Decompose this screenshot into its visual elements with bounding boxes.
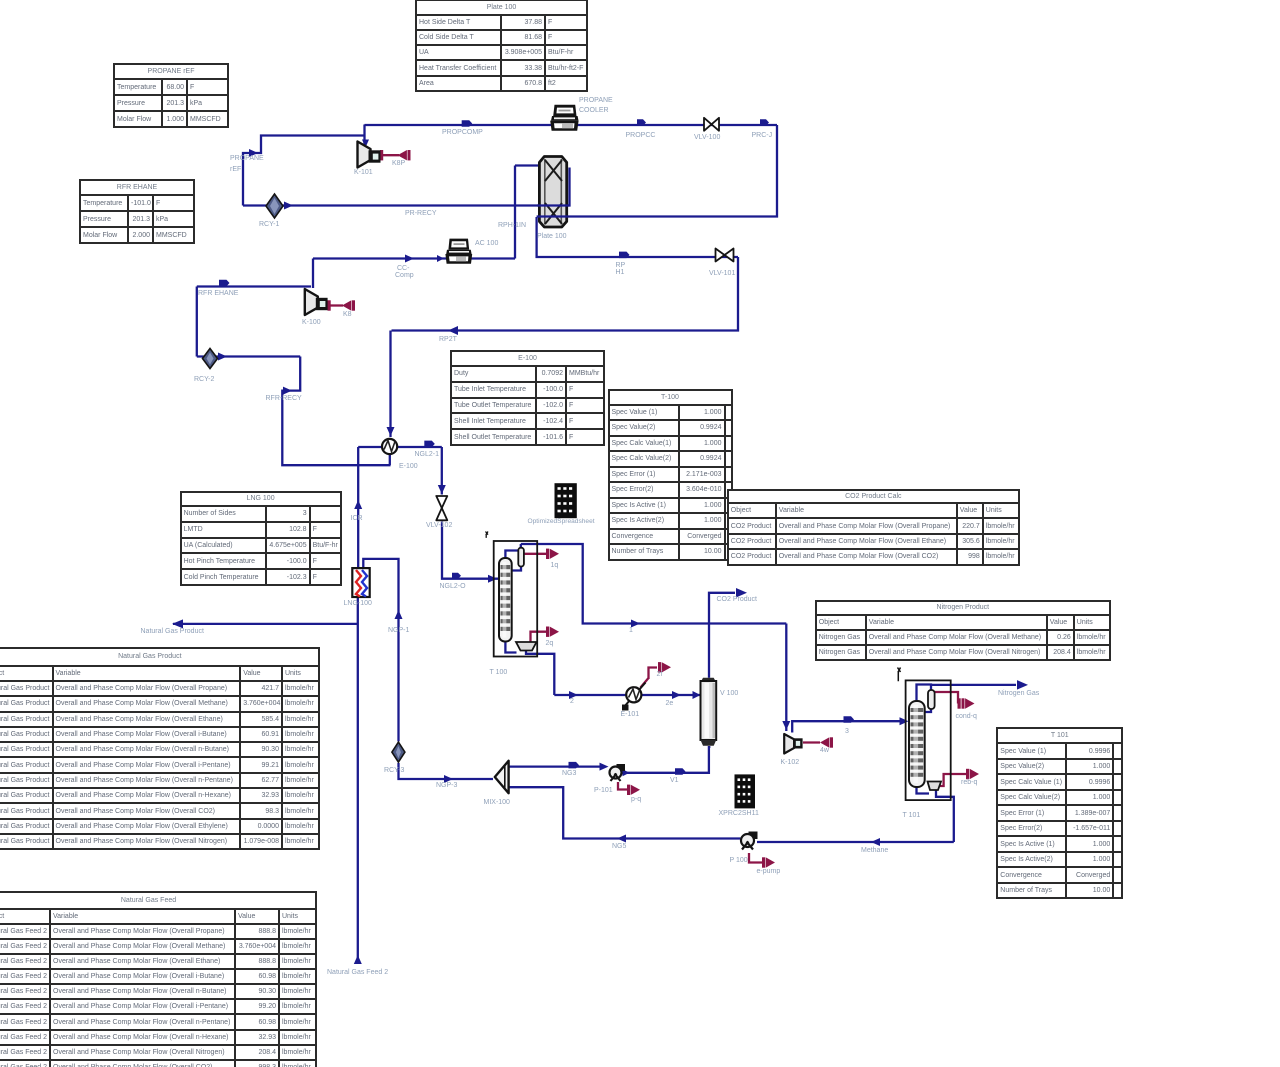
wire VLV-101 drop RP2T — [392, 257, 739, 331]
compressor K-100 — [305, 289, 328, 315]
wire PR-RECY from RCY-1 to plate top-right — [283, 168, 570, 206]
energy K-100 duty arrow — [342, 300, 351, 310]
label stream 2 jn — [570, 698, 574, 705]
label Nitrogen Gas stream — [998, 690, 1039, 697]
junction NGL2-1 — [424, 441, 435, 448]
table LNG-100 — [180, 491, 342, 586]
table Natural Gas Feed — [0, 891, 317, 1067]
column T-101 condenser — [928, 690, 935, 709]
recycle RCY-2 — [203, 349, 218, 369]
wire T-100 tower overhead to condenser — [505, 548, 520, 558]
wire T-101 reboiler outlet Methane — [936, 790, 954, 842]
label ICR — [351, 515, 363, 522]
arrow into V-100 inlet — [693, 691, 701, 699]
compressor K-102 — [784, 734, 802, 754]
energy e-pump arrow — [762, 857, 765, 867]
label 2q — [546, 640, 554, 647]
table CO2 Product Calc — [727, 489, 1020, 566]
arrow Nitrogen Gas tip — [1017, 680, 1028, 690]
label PROPANE COOLER line1 — [579, 97, 613, 104]
table Plate 100 — [415, 0, 588, 92]
wire K-101 riser — [363, 125, 365, 151]
label K8 — [343, 311, 352, 318]
label stream 2e — [666, 700, 674, 707]
compressor K-101 — [358, 142, 381, 168]
label RFR EHANE stream — [198, 290, 238, 297]
wire T-100 condenser top stub — [520, 544, 522, 548]
arrow NGP-3 into MIX-100 — [444, 775, 453, 783]
wire stream 2 to E-101 and V-100 — [554, 694, 700, 696]
wire PROPCOMP to PRC-J — [365, 124, 778, 126]
label T-100 label — [490, 669, 508, 676]
label PROPCC — [626, 132, 656, 139]
junction PROPCOMP — [462, 120, 473, 127]
junction V1 — [675, 768, 686, 775]
label RP2T — [439, 336, 457, 343]
wire V-100 bottom stub — [708, 746, 710, 748]
label E-101 label — [621, 711, 640, 718]
column T-100 tower — [499, 558, 512, 642]
junction 3 — [844, 716, 855, 723]
label E-100 label — [399, 463, 418, 470]
table E-100 — [450, 350, 605, 446]
energy K-100 duty line — [329, 304, 343, 306]
wire PR-RECY over plate — [537, 204, 570, 206]
wire T-101 condenser return — [925, 709, 931, 712]
wire Methane from P-100 into mixer — [509, 787, 740, 838]
table T-101 spec — [996, 727, 1123, 899]
label RFR-RECY — [266, 395, 302, 402]
arrow ICR up — [354, 500, 362, 509]
label T-101 label — [903, 812, 921, 819]
table Natural Gas Product — [0, 647, 320, 850]
label MIX-100 — [484, 799, 510, 806]
arrow RP2T — [448, 326, 458, 335]
column T-100 reboiler — [516, 642, 537, 651]
energy K-102 duty arrow — [820, 737, 829, 747]
cooler PROPANE COOLER — [550, 105, 578, 131]
energy p-q arrow — [627, 785, 630, 795]
wire Natural Gas Product out — [173, 623, 358, 625]
label PROPCOMP — [442, 129, 483, 136]
label K-102 — [781, 759, 800, 766]
column T-101 reboiler — [928, 782, 942, 791]
wire plate bottom-left to VLV-101 — [537, 217, 738, 257]
wire K-100 to AC-100 line — [313, 257, 515, 259]
label P-101 — [594, 787, 613, 794]
label NGP-1 — [388, 627, 409, 634]
label H1 line2 — [616, 269, 625, 276]
label PROPANE rEF line1 — [230, 155, 264, 162]
arrow on PROPANE rEF riser — [249, 149, 258, 157]
label VLV-100 — [694, 134, 720, 141]
wire RFR EHANE drop to RCY-2 — [196, 287, 198, 357]
arrow CO2 Product tip — [736, 588, 747, 598]
wire T-100 condenser return — [512, 567, 521, 571]
label Natural Gas Feed 2 stream — [327, 969, 388, 976]
label AC 100 — [475, 240, 498, 247]
wire K-102 outlet stream 3 — [792, 721, 902, 732]
arrow stream 1 into K-102 — [782, 721, 790, 730]
column T-101 tower — [909, 701, 925, 787]
arrow into K-101 — [362, 140, 369, 148]
wire T-101 tower bottoms to reboiler — [917, 787, 930, 794]
wire NGP-1 from LNG-100 top to RCY-3 — [363, 559, 398, 742]
wire RCY-2 outlet right — [197, 355, 300, 357]
arrow stream 2 — [569, 691, 578, 699]
arrow NG3 into P-101 — [600, 763, 609, 771]
arrow CC-Comp into AC-100 — [405, 255, 414, 263]
table T-100 spec — [608, 389, 733, 561]
recycle RCY-3 — [392, 742, 405, 762]
energy cond-q bar — [958, 698, 961, 708]
energy 1q arrow — [546, 549, 549, 559]
exchanger E-100 — [382, 439, 397, 454]
label RCY-1 — [259, 221, 279, 228]
column T-100 condenser — [518, 548, 524, 567]
wire K-100 outlet riser — [312, 259, 314, 289]
label LNG-100 label — [344, 600, 372, 607]
label stream 1 jn — [629, 627, 633, 634]
wire Methane line to P-100 — [757, 841, 954, 843]
energy 2q arrow — [546, 627, 549, 637]
label NGP-3 — [436, 782, 457, 789]
wire CO2 Product riser — [709, 593, 735, 678]
separator V-100 — [701, 678, 717, 746]
wire RP2T into E-100 top — [389, 331, 391, 438]
label V-100 label — [720, 690, 738, 697]
label XPRC2H11 label — [719, 810, 759, 817]
valve VLV-102 — [436, 496, 447, 520]
label p-q — [631, 796, 641, 803]
label VLV-101 — [709, 270, 735, 277]
wire AC-100 outlet riser — [514, 166, 516, 259]
energy T-100 reboiler duty line — [531, 632, 547, 645]
arrow out of RCY-2 — [218, 353, 227, 361]
energy K-102 duty line — [803, 741, 820, 743]
energy P-101 duty line — [618, 782, 627, 790]
label reb-q — [961, 779, 977, 786]
arrow into AC-100 inlet — [437, 255, 444, 262]
wire PROPANE rEF from RCY-1 to K-101 — [243, 136, 365, 206]
cursor mark near T-101 — [898, 668, 901, 682]
energy cond-q arrow — [962, 698, 965, 708]
energy E-101 duty line — [641, 668, 658, 688]
wire stream 1 drop to K-102 — [785, 624, 787, 732]
label PRC-J — [752, 132, 773, 139]
label 1q — [551, 562, 559, 569]
energy T-100 condenser duty line — [524, 553, 546, 555]
label stream 3 jn — [845, 728, 849, 735]
label CC-Comp line1 — [397, 265, 409, 272]
energy K8P arrow — [398, 150, 407, 160]
wire RCY-1 through segment — [243, 204, 287, 206]
junction NG3 — [569, 762, 580, 769]
recycle RCY-1 — [266, 194, 283, 218]
label e-pump — [757, 868, 781, 875]
valve VLV-100 — [704, 118, 719, 131]
label V1 — [670, 777, 679, 784]
label 2f — [657, 671, 663, 678]
wire E-100 left drop to LNG-100 — [357, 447, 359, 568]
energy P-100 duty line — [749, 853, 762, 863]
wire stream 1 overhead out — [521, 544, 787, 624]
exchanger E-101 — [622, 683, 646, 711]
label OptimizedSpreadsheet — [528, 519, 595, 526]
energy 2f arrow — [658, 662, 661, 672]
label RCY-3 — [384, 767, 404, 774]
junction RFR EHANE — [219, 280, 230, 287]
label RCY-2 — [194, 376, 214, 383]
label CO2 Product stream — [717, 596, 757, 603]
arrow NG5 left — [617, 835, 626, 843]
energy reb-q arrow — [966, 769, 969, 779]
wire VLV-102 to T-100 feed NGL2-O — [442, 522, 499, 579]
label VLV-102 — [426, 522, 452, 529]
label Natural Gas Product stream — [141, 628, 204, 635]
column T-100 boundary — [494, 541, 538, 657]
label NGL2-1 — [415, 451, 440, 458]
wire plate bottom-right over plate — [537, 215, 568, 217]
arrow RFR-RECY — [283, 387, 292, 395]
exchanger Plate 100 — [539, 157, 566, 228]
label Methane stream — [861, 847, 888, 854]
wire T-100 tower bottoms to reboiler — [505, 642, 516, 653]
energy K8P line — [382, 154, 400, 156]
table PROPANE rEF — [113, 63, 229, 128]
label P-100 — [730, 857, 748, 864]
pump P-101 — [610, 764, 626, 781]
label K8P — [392, 160, 405, 167]
wire Natural Gas Feed 2 riser — [357, 598, 359, 964]
arrow Natural Gas Product tip — [172, 619, 183, 628]
wire T-101 tower overhead to condenser — [917, 685, 932, 702]
mixer MIX-100 — [495, 761, 509, 793]
label NGL2-O — [440, 583, 466, 590]
arrow NGL2-O into T-100 — [488, 575, 497, 583]
label PR-RECY — [405, 210, 437, 217]
cooler AC-100 — [445, 239, 472, 264]
table RFR EHANE — [79, 179, 195, 244]
label NG5 — [612, 843, 626, 850]
arrow stream 2e into V-100 — [672, 691, 681, 699]
junction NGL2-O jn — [452, 573, 461, 579]
wire RPH-1IN into plate top-left — [515, 164, 539, 166]
arrow stream 3 into T-101 — [900, 717, 909, 725]
wire RFR EHANE into K-100 — [197, 285, 311, 287]
energy K8P bar — [380, 150, 383, 160]
arrow into E-100 top — [387, 427, 395, 436]
label NG3 — [562, 770, 576, 777]
arrow Natural Gas Feed 2 up — [354, 955, 362, 964]
wire NGP-3 from RCY-3 to MIX-100 — [399, 763, 494, 779]
wire E-100 bottom stub — [389, 455, 391, 465]
junction PROPCC — [637, 119, 646, 126]
arrow Methane left — [871, 838, 880, 846]
exchanger LNG-100 — [352, 568, 369, 597]
label K-100 — [302, 319, 321, 326]
label cond-q — [956, 713, 977, 720]
arrow out of RCY-1 — [284, 202, 293, 210]
wire Nitrogen Gas out — [931, 684, 1016, 686]
junction PRC-J — [760, 119, 769, 126]
wire E-100 shell line — [358, 446, 442, 448]
wire PRC-J drop to plate right — [567, 125, 777, 217]
energy cond-q line — [935, 692, 958, 704]
valve VLV-101 — [716, 249, 734, 262]
cursor mark near T-100 — [486, 532, 489, 538]
wire NG3 mixer to P-101 — [509, 765, 603, 767]
junction H1 — [619, 252, 630, 259]
label Plate 100 label — [537, 233, 567, 240]
energy reb-q line — [940, 774, 966, 786]
arrow out of P-101 — [623, 769, 630, 776]
wire NGL2-1 drop to VLV-102 — [441, 447, 443, 495]
wire P-101 outlet to V-100 bottom — [624, 746, 709, 773]
label 4 duty — [820, 747, 829, 754]
arrow NGP-1 up — [395, 610, 403, 619]
spreadsheet OptimizedSpreadsheet — [555, 483, 577, 518]
arrow NGL2 into VLV-102 — [438, 485, 446, 494]
arrow stream 1 — [631, 620, 640, 628]
pump P-100 — [741, 832, 758, 850]
label H1 line1 — [616, 262, 626, 269]
energy K-100 duty bar — [328, 300, 331, 310]
table Nitrogen Product — [815, 600, 1111, 661]
wire RFR-RECY jog to E-100 bottom — [282, 357, 390, 466]
spreadsheet XPRC2H11 — [735, 774, 756, 808]
label RPH-1IN — [498, 222, 526, 229]
label K-101 — [354, 169, 373, 176]
column T-101 boundary — [906, 680, 951, 800]
label CC-Comp line2 — [395, 272, 414, 279]
label PROPANE COOLER line2 — [579, 107, 609, 114]
wire T-100 reboiler outlet — [526, 651, 554, 696]
label PROPANE rEF line2 — [230, 166, 241, 173]
